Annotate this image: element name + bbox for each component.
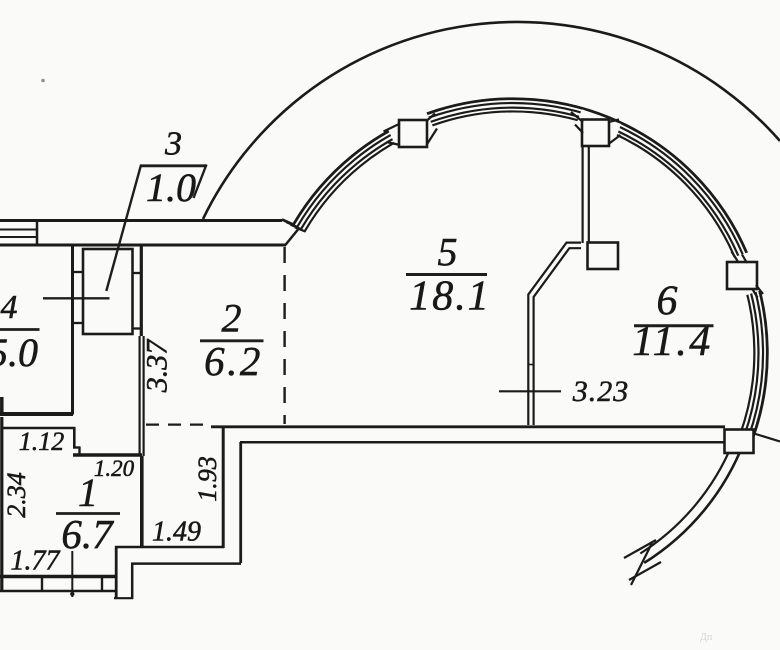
steps / lower-right outline of room 1 bbox=[115, 546, 224, 549]
room 1 walls bbox=[0, 417, 3, 592]
closet cavity connectors bbox=[74, 271, 82, 273]
dimension 3.23 leader bbox=[499, 390, 561, 392]
top exterior wall with window bbox=[0, 219, 282, 222]
svg-text:Дп: Дп bbox=[700, 632, 713, 643]
svg-text:6.7: 6.7 bbox=[61, 511, 114, 557]
svg-text:2: 2 bbox=[222, 296, 242, 341]
svg-text:3.23: 3.23 bbox=[572, 375, 630, 408]
bottom wall rooms 5/6 bbox=[211, 425, 725, 428]
svg-text:3: 3 bbox=[164, 126, 182, 163]
post connectors bbox=[384, 124, 401, 132]
svg-text:6.2: 6.2 bbox=[204, 338, 263, 384]
svg-text:4: 4 bbox=[1, 289, 18, 326]
outer building arc bbox=[203, 22, 780, 219]
scan artifacts bbox=[41, 79, 45, 83]
svg-text:6: 6 bbox=[657, 279, 678, 325]
svg-text:5: 5 bbox=[438, 230, 458, 275]
svg-text:11.4: 11.4 bbox=[632, 319, 712, 365]
leader from 6.7 label bbox=[71, 551, 73, 597]
wall left of closet bbox=[71, 246, 74, 415]
svg-text:1.49: 1.49 bbox=[152, 517, 201, 548]
balcony break mark bbox=[624, 540, 656, 558]
dashed divider room2/room5 bbox=[283, 247, 285, 424]
svg-text:1.20: 1.20 bbox=[94, 456, 135, 481]
dashed opening room1/room5 bbox=[146, 424, 211, 426]
svg-text:1.12: 1.12 bbox=[19, 427, 65, 456]
balcony railing arcs bbox=[644, 442, 744, 563]
svg-text:5.0: 5.0 bbox=[0, 330, 38, 375]
window posts bbox=[399, 120, 427, 147]
svg-text:18.1: 18.1 bbox=[409, 274, 491, 320]
svg-text:1.0: 1.0 bbox=[146, 165, 196, 210]
closet room 3 box bbox=[83, 249, 133, 334]
svg-text:1.93: 1.93 bbox=[193, 456, 222, 502]
line from post D to right edge bbox=[754, 434, 780, 442]
svg-text:3.37: 3.37 bbox=[141, 338, 174, 394]
wall right of closet (room 2 left wall) bbox=[140, 246, 143, 336]
window band arcs bbox=[282, 99, 767, 438]
wall between rooms 5 and 6 bbox=[581, 147, 583, 243]
room 4 bottom wall bbox=[0, 412, 73, 416]
svg-text:1.77: 1.77 bbox=[11, 546, 61, 577]
svg-text:2.34: 2.34 bbox=[2, 472, 31, 518]
pillar bbox=[588, 243, 619, 270]
